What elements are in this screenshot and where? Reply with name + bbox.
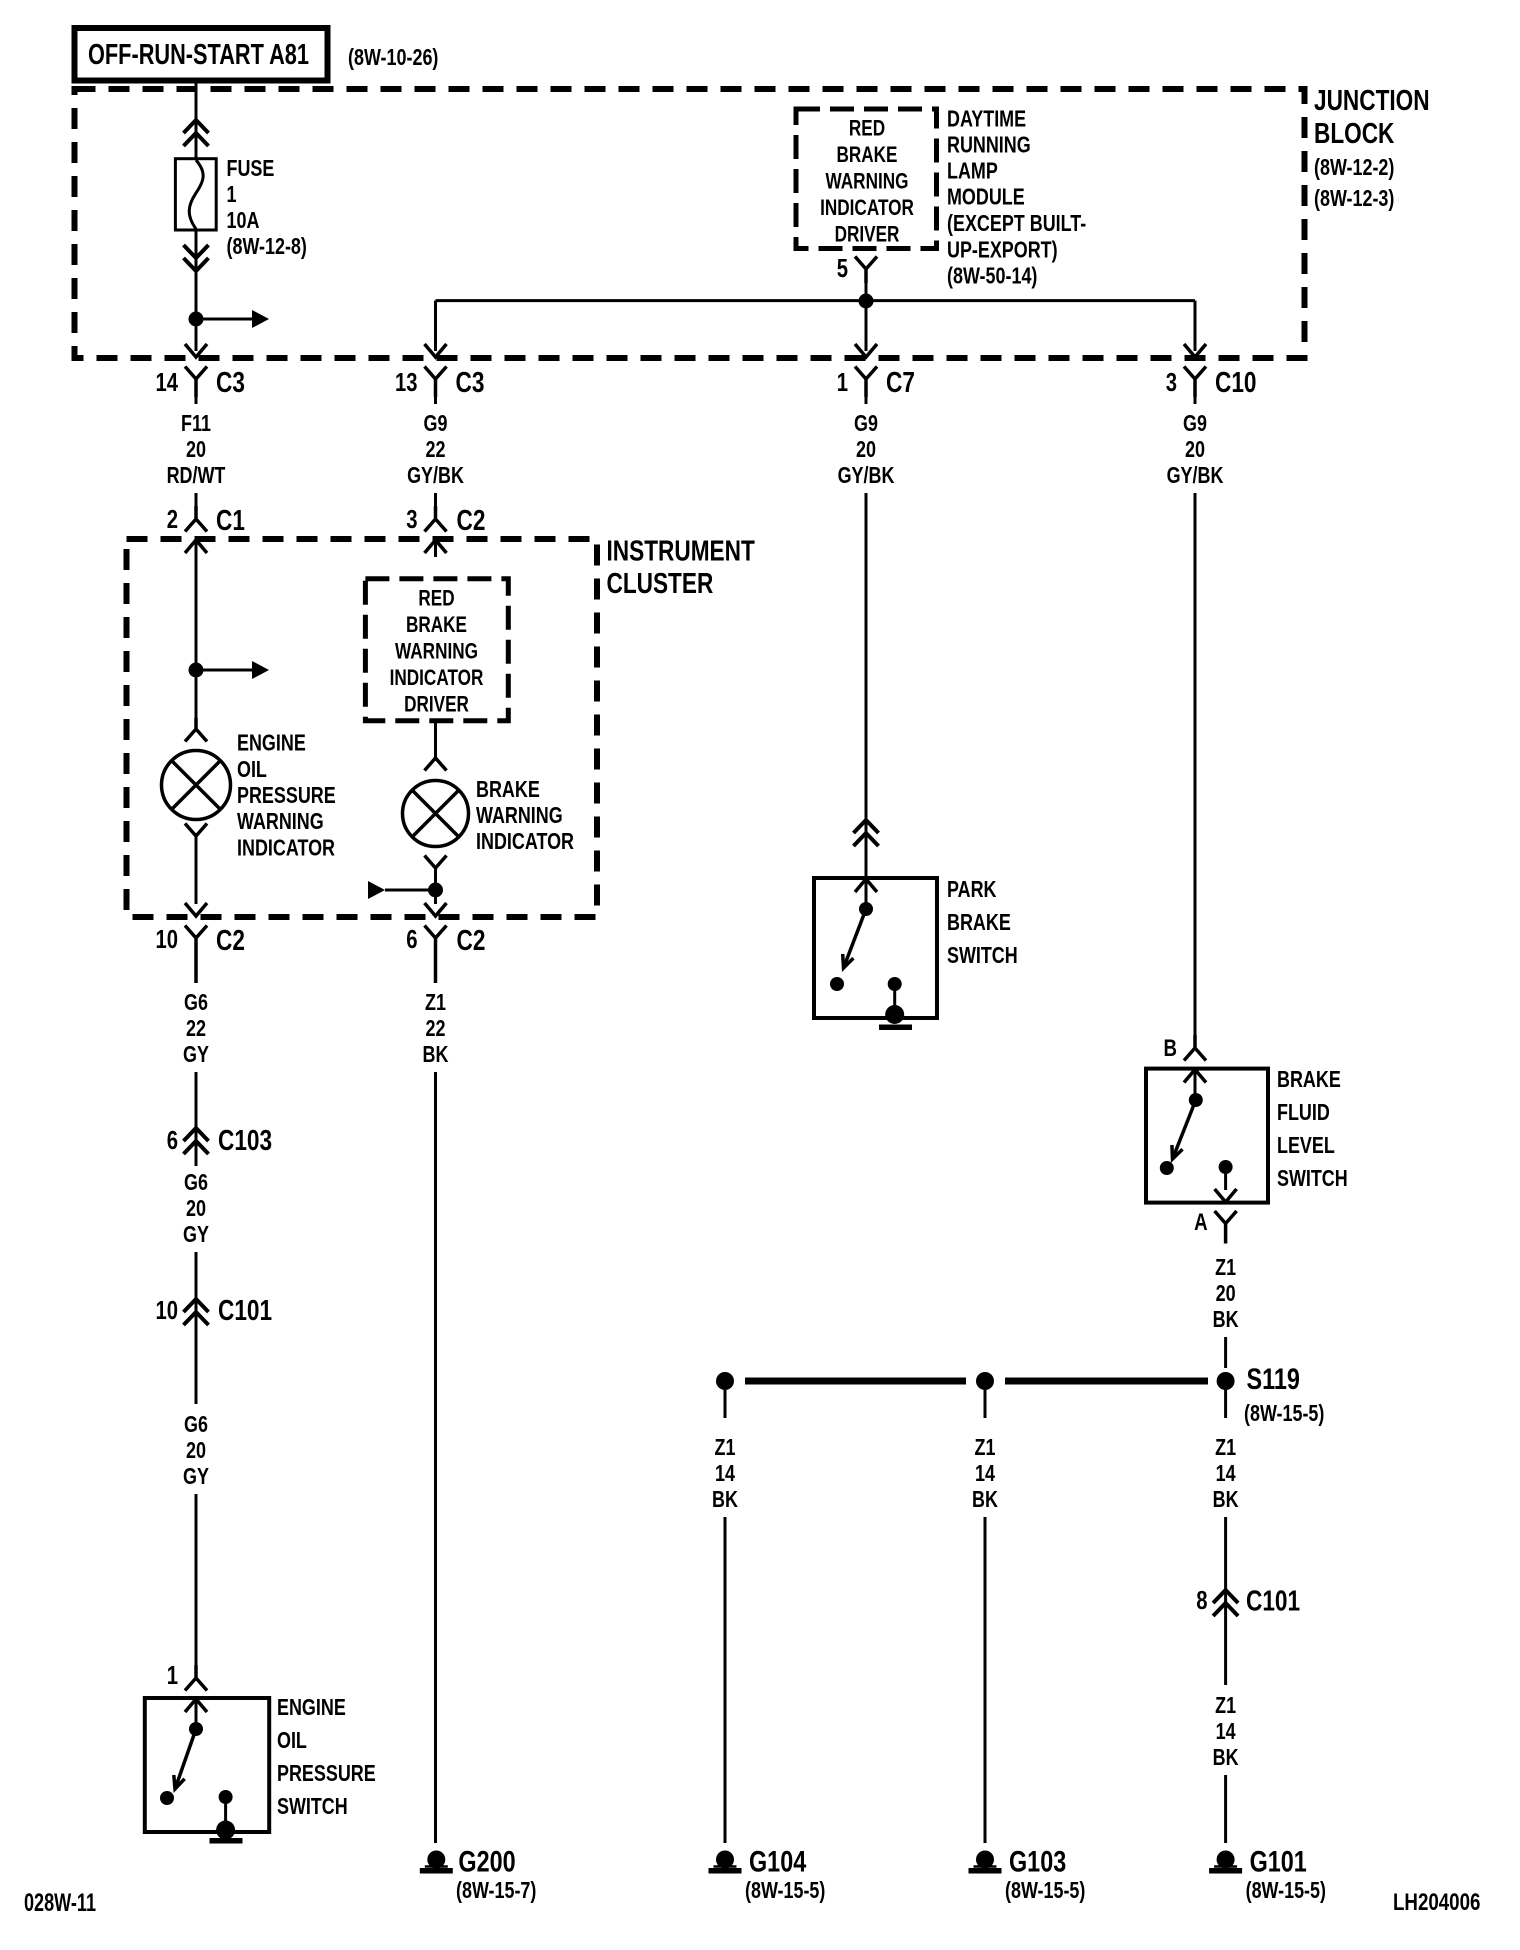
red brake warning indicator driver (instrument cluster) — [365, 579, 508, 721]
fuse holder terminal (double chevron down) — [184, 245, 209, 271]
wire G9 20 GY/BK (park brake) — [838, 397, 895, 488]
junction node with incoming arrow — [368, 881, 443, 899]
svg-text:OIL: OIL — [277, 1727, 307, 1753]
instrument cluster boundary (dashed) — [127, 539, 598, 917]
junction block label — [1314, 85, 1430, 211]
engine oil pressure switch — [145, 1698, 269, 1832]
park brake switch — [814, 878, 937, 1018]
connector C2 pin 6 — [406, 924, 485, 983]
svg-text:14: 14 — [715, 1460, 735, 1486]
lamp lower terminal — [185, 824, 207, 837]
wire Z1 14 BK (body) — [1213, 1692, 1239, 1770]
svg-text:C2: C2 — [457, 925, 486, 957]
svg-text:SWITCH: SWITCH — [277, 1793, 348, 1819]
wire from A81 feed to fuse 1 — [195, 83, 198, 160]
svg-text:Z1: Z1 — [715, 1434, 736, 1460]
svg-text:(8W-15-5): (8W-15-5) — [1005, 1877, 1085, 1903]
svg-text:JUNCTION: JUNCTION — [1314, 85, 1430, 117]
svg-text:WARNING: WARNING — [476, 802, 563, 828]
wire pin 5 to bus node — [865, 281, 868, 301]
wire Z1 22 BK — [423, 989, 449, 1067]
wire to oil lamp branch node — [195, 550, 198, 670]
svg-text:F11: F11 — [181, 410, 211, 436]
drawing number LH204006 — [1393, 1889, 1480, 1916]
svg-text:10A: 10A — [227, 207, 260, 233]
svg-text:DAYTIME: DAYTIME — [947, 106, 1026, 132]
svg-text:DRIVER: DRIVER — [835, 222, 900, 247]
svg-text:RUNNING: RUNNING — [947, 132, 1031, 158]
svg-text:GY/BK: GY/BK — [838, 462, 895, 488]
svg-text:WARNING: WARNING — [826, 169, 909, 194]
cluster entry arrow pin 2 — [185, 540, 207, 557]
svg-text:(8W-10-26): (8W-10-26) — [348, 44, 438, 70]
svg-text:C10: C10 — [1215, 367, 1257, 399]
svg-text:BRAKE: BRAKE — [837, 142, 898, 167]
svg-text:WARNING: WARNING — [395, 639, 478, 664]
brake fluid level switch — [1146, 1069, 1268, 1203]
park brake switch blade — [843, 909, 866, 968]
svg-text:20: 20 — [186, 1437, 206, 1463]
svg-text:20: 20 — [186, 436, 206, 462]
wire to ground G104 — [724, 1517, 727, 1843]
brake warning indicator label — [476, 776, 574, 854]
engine oil pressure warning indicator lamp — [162, 751, 231, 820]
svg-text:ENGINE: ENGINE — [237, 730, 306, 756]
park brake switch common contact — [859, 902, 873, 916]
svg-text:13: 13 — [395, 367, 418, 397]
svg-text:028W-11: 028W-11 — [24, 1889, 96, 1917]
svg-text:PRESSURE: PRESSURE — [277, 1760, 376, 1786]
fuse 1 10A — [175, 159, 216, 230]
fluid level switch common contact — [1189, 1093, 1203, 1107]
in-line connector C103 pin 6 — [167, 1125, 272, 1157]
wire C10 to fluid level switch pin B — [1194, 493, 1197, 1035]
junction node on G9 bus — [859, 294, 874, 309]
svg-text:INSTRUMENT: INSTRUMENT — [607, 536, 756, 568]
connector pin 1 (oil pressure switch) — [167, 1660, 207, 1691]
svg-text:PRESSURE: PRESSURE — [237, 782, 336, 808]
svg-text:OIL: OIL — [237, 756, 267, 782]
svg-text:G6: G6 — [184, 1169, 208, 1195]
oil pressure switch contact — [160, 1791, 174, 1805]
svg-text:RD/WT: RD/WT — [167, 462, 226, 488]
svg-text:Z1: Z1 — [425, 989, 446, 1015]
G9 bus wire horizontal — [436, 299, 1196, 302]
svg-text:6: 6 — [167, 1125, 178, 1155]
svg-text:C1: C1 — [216, 505, 245, 537]
ground at park brake switch case — [879, 1005, 912, 1030]
svg-text:SWITCH: SWITCH — [947, 942, 1018, 968]
svg-text:Z1: Z1 — [1215, 1434, 1236, 1460]
splice node S119 — [1217, 1363, 1325, 1426]
svg-text:8: 8 — [1196, 1585, 1207, 1615]
wire G9 22 GY/BK — [407, 397, 464, 488]
connector C10 pin 3 — [1166, 367, 1257, 400]
connector pin B (fluid level switch) — [1164, 1035, 1207, 1062]
wire G6 22 GY — [183, 989, 209, 1067]
wire below fuse — [195, 229, 198, 319]
svg-text:BRAKE: BRAKE — [406, 612, 467, 637]
fluid level switch blade — [1172, 1100, 1196, 1159]
svg-text:INDICATOR: INDICATOR — [237, 834, 335, 860]
wire to oil pressure lamp — [185, 670, 207, 742]
svg-text:Z1: Z1 — [1215, 1692, 1236, 1718]
svg-text:14: 14 — [156, 367, 179, 397]
node OFF-RUN-START A81 feed box — [75, 28, 328, 81]
svg-text:10: 10 — [156, 1295, 179, 1325]
svg-text:1: 1 — [227, 181, 237, 207]
svg-text:(8W-15-5): (8W-15-5) — [745, 1877, 825, 1903]
svg-text:20: 20 — [1185, 436, 1205, 462]
fluid level switch output contact — [1215, 1160, 1237, 1202]
svg-text:UP-EXPORT): UP-EXPORT) — [947, 237, 1058, 263]
in-line connector (park brake feed) — [854, 820, 879, 846]
svg-text:22: 22 — [186, 1015, 206, 1041]
connector C1 pin 2 — [167, 493, 245, 537]
ground at oil pressure switch case — [210, 1821, 243, 1844]
svg-text:BK: BK — [972, 1486, 998, 1512]
driver pin 5 connector — [837, 253, 877, 283]
connector C2 pin 3 — [406, 493, 485, 537]
svg-text:C3: C3 — [456, 367, 485, 399]
svg-text:BK: BK — [712, 1486, 738, 1512]
svg-text:GY: GY — [183, 1463, 209, 1489]
svg-text:1: 1 — [167, 1660, 178, 1690]
wire to connector C3 pin 14 — [185, 319, 207, 357]
wire lamp to connector C2 pin 10 — [185, 836, 207, 916]
fluid level switch contact — [1160, 1161, 1174, 1175]
svg-text:G101: G101 — [1250, 1846, 1307, 1879]
wire to ground G101 — [1224, 1775, 1227, 1843]
red brake warning indicator driver (daytime running lamp module) — [796, 109, 937, 249]
svg-text:(8W-15-7): (8W-15-7) — [456, 1877, 536, 1903]
svg-text:G6: G6 — [184, 989, 208, 1015]
wire bus down to connector C3 pin 13 — [425, 301, 447, 357]
ground G104 — [709, 1846, 826, 1904]
wire Z1 14 BK (G101 leg) — [1213, 1390, 1239, 1512]
svg-text:6: 6 — [406, 924, 417, 954]
svg-text:C2: C2 — [216, 925, 245, 957]
svg-text:GY: GY — [183, 1041, 209, 1067]
svg-text:14: 14 — [1216, 1460, 1236, 1486]
svg-text:C101: C101 — [1246, 1586, 1300, 1618]
instrument cluster label — [607, 536, 756, 601]
wire to splice S119 — [1224, 1337, 1227, 1368]
branch node with take-out arrow (cluster) — [189, 661, 270, 679]
svg-text:G9: G9 — [854, 410, 878, 436]
svg-text:14: 14 — [975, 1460, 995, 1486]
wire lamp to junction node — [434, 868, 437, 890]
svg-text:G103: G103 — [1009, 1846, 1066, 1879]
svg-text:5: 5 — [837, 253, 848, 283]
svg-text:BLOCK: BLOCK — [1314, 118, 1394, 150]
splice node (to G104) — [716, 1372, 734, 1418]
svg-text:C7: C7 — [886, 367, 915, 399]
lamp lower terminal — [425, 856, 447, 869]
svg-text:INDICATOR: INDICATOR — [390, 665, 484, 690]
svg-text:BRAKE: BRAKE — [947, 909, 1011, 935]
svg-text:C2: C2 — [457, 505, 486, 537]
svg-text:(EXCEPT BUILT-: (EXCEPT BUILT- — [947, 210, 1086, 236]
wire G6 20 GY — [183, 1169, 209, 1247]
wire Z1 20 BK — [1213, 1254, 1239, 1332]
svg-text:20: 20 — [856, 436, 876, 462]
svg-text:BK: BK — [1213, 1744, 1239, 1770]
wire to connector C103 — [195, 1072, 198, 1166]
branch node with take-out arrow — [189, 310, 270, 328]
splice S119 bus wire — [745, 1378, 1208, 1385]
connector C3 pin 14 — [156, 367, 245, 400]
svg-text:RED: RED — [849, 116, 885, 141]
svg-text:OFF-RUN-START A81: OFF-RUN-START A81 — [88, 39, 309, 71]
svg-text:ENGINE: ENGINE — [277, 1694, 346, 1720]
svg-text:DRIVER: DRIVER — [404, 692, 469, 717]
wire to branch node — [195, 271, 198, 319]
park brake switch contact — [830, 977, 844, 991]
wire bus down to connector C7 pin 1 — [855, 301, 877, 357]
svg-text:Z1: Z1 — [975, 1434, 996, 1460]
svg-text:LEVEL: LEVEL — [1277, 1132, 1335, 1158]
wire G9 20 GY/BK (fluid level) — [1167, 397, 1224, 488]
wire G6 20 GY (engine harness) — [183, 1411, 209, 1489]
fuse holder terminal (double chevron up) — [184, 120, 209, 146]
wire to connector C101 — [195, 1252, 198, 1404]
engine oil pressure warning indicator label — [237, 730, 336, 861]
svg-text:14: 14 — [1216, 1718, 1236, 1744]
svg-text:BRAKE: BRAKE — [1277, 1066, 1341, 1092]
oil pressure switch case contact to ground — [219, 1790, 233, 1826]
svg-text:LAMP: LAMP — [947, 158, 998, 184]
svg-text:G6: G6 — [184, 1411, 208, 1437]
wire C7 to in-line connector — [865, 493, 868, 878]
svg-text:C103: C103 — [218, 1125, 272, 1157]
svg-text:BK: BK — [423, 1041, 449, 1067]
brake fluid level switch label — [1277, 1066, 1348, 1191]
in-line connector C101 pin 10 — [156, 1295, 273, 1327]
svg-text:1: 1 — [837, 367, 848, 397]
sheet number 028W-11 — [24, 1889, 96, 1917]
in-line connector C101 pin 8 — [1196, 1585, 1300, 1618]
svg-text:(8W-15-5): (8W-15-5) — [1246, 1877, 1326, 1903]
svg-text:INDICATOR: INDICATOR — [476, 828, 574, 854]
engine oil pressure switch label — [277, 1694, 376, 1819]
svg-text:BK: BK — [1213, 1486, 1239, 1512]
svg-text:LH204006: LH204006 — [1393, 1889, 1480, 1916]
connector pin A (fluid level switch) — [1194, 1209, 1237, 1244]
svg-text:GY/BK: GY/BK — [407, 462, 464, 488]
svg-text:SWITCH: SWITCH — [1277, 1165, 1348, 1191]
svg-text:FLUID: FLUID — [1277, 1099, 1330, 1125]
svg-text:(8W-12-3): (8W-12-3) — [1314, 185, 1394, 211]
wire to ground G103 — [984, 1517, 987, 1843]
svg-text:PARK: PARK — [947, 876, 997, 902]
svg-text:22: 22 — [426, 436, 446, 462]
wire to oil pressure switch pin 1 — [195, 1494, 198, 1665]
svg-text:G9: G9 — [1183, 410, 1207, 436]
svg-text:Z1: Z1 — [1215, 1254, 1236, 1280]
svg-text:3: 3 — [406, 504, 417, 534]
oil pressure switch common contact — [189, 1722, 203, 1736]
ground G200 — [420, 1846, 537, 1904]
fuse label FUSE 1 10A (8W-12-8) — [227, 155, 307, 259]
brake warning indicator lamp — [403, 781, 469, 847]
svg-text:(8W-12-8): (8W-12-8) — [227, 233, 307, 259]
connector C3 pin 13 — [395, 367, 484, 400]
park brake switch label — [947, 876, 1018, 968]
oil pressure switch blade — [174, 1729, 196, 1789]
daytime running lamp module label — [947, 106, 1086, 289]
ground G103 — [969, 1846, 1086, 1904]
connector C7 pin 1 — [837, 367, 915, 400]
svg-text:C3: C3 — [216, 367, 245, 399]
svg-text:INDICATOR: INDICATOR — [820, 195, 914, 220]
svg-text:G200: G200 — [458, 1846, 515, 1879]
svg-text:B: B — [1164, 1035, 1178, 1062]
wire to connector C101 pin 8 — [1224, 1517, 1227, 1685]
svg-text:G9: G9 — [424, 410, 448, 436]
junction block boundary (dashed) — [75, 89, 1305, 358]
svg-text:RED: RED — [418, 586, 454, 611]
svg-text:10: 10 — [156, 924, 179, 954]
svg-text:GY: GY — [183, 1221, 209, 1247]
ground G101 — [1209, 1846, 1326, 1904]
svg-text:BRAKE: BRAKE — [476, 776, 540, 802]
wire Z1 14 BK (G103 leg) — [972, 1434, 998, 1512]
splice node (to G103) — [976, 1372, 994, 1418]
wire bus down to connector C10 pin 3 — [1184, 301, 1206, 357]
svg-text:3: 3 — [1166, 367, 1177, 397]
reference (8W-10-26) — [348, 44, 438, 70]
cluster entry arrow pin 3 — [425, 540, 447, 557]
svg-text:20: 20 — [186, 1195, 206, 1221]
svg-text:S119: S119 — [1247, 1363, 1300, 1396]
wire F11 20 RD/WT — [167, 397, 226, 488]
svg-text:FUSE: FUSE — [227, 155, 275, 181]
wire Z1 14 BK (G104 leg) — [712, 1434, 738, 1512]
connector C2 pin 10 — [156, 924, 245, 983]
svg-text:2: 2 — [167, 504, 178, 534]
svg-text:20: 20 — [1216, 1280, 1236, 1306]
svg-text:(8W-12-2): (8W-12-2) — [1314, 154, 1394, 180]
svg-text:BK: BK — [1213, 1306, 1239, 1332]
svg-text:C101: C101 — [218, 1295, 272, 1327]
svg-text:22: 22 — [426, 1015, 446, 1041]
wire driver to brake lamp — [425, 721, 447, 771]
wire to ground G200 — [434, 1072, 437, 1843]
svg-text:WARNING: WARNING — [237, 808, 324, 834]
wire to connector C2 pin 6 — [425, 890, 447, 916]
svg-text:(8W-15-5): (8W-15-5) — [1244, 1400, 1324, 1426]
park brake switch case contact to ground — [888, 977, 902, 1012]
svg-text:(8W-50-14): (8W-50-14) — [947, 263, 1037, 289]
svg-text:CLUSTER: CLUSTER — [607, 568, 714, 600]
svg-text:G104: G104 — [749, 1846, 806, 1879]
svg-text:MODULE: MODULE — [947, 184, 1025, 210]
svg-text:GY/BK: GY/BK — [1167, 462, 1224, 488]
svg-text:A: A — [1194, 1209, 1208, 1236]
